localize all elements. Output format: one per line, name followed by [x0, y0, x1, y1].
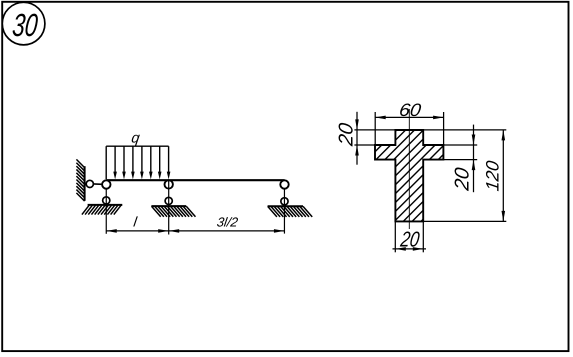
svg-text:20: 20: [398, 226, 421, 251]
svg-text:60: 60: [398, 100, 422, 120]
svg-text:120: 120: [483, 159, 503, 192]
svg-text:3l/2: 3l/2: [216, 215, 240, 230]
svg-text:20: 20: [335, 122, 357, 148]
svg-text:20: 20: [452, 166, 474, 192]
svg-text:30: 30: [11, 7, 40, 43]
